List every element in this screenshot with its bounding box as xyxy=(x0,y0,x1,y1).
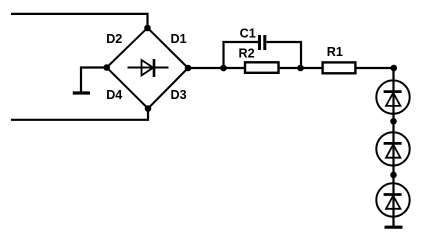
node right (junction dot) xyxy=(185,65,192,72)
resistor R1 xyxy=(323,62,356,73)
junction dot between circled diodes 2 and 3 xyxy=(390,172,397,179)
wire R2 to R1 xyxy=(280,67,322,69)
svg-text:R2: R2 xyxy=(239,47,255,61)
diode D2 arm (left node to top node) xyxy=(107,28,148,68)
svg-text:D4: D4 xyxy=(106,88,122,102)
node bottom (junction dot) xyxy=(145,105,152,112)
diode D1 arm (top node to right node) xyxy=(148,28,189,68)
resistor R2 xyxy=(245,62,279,73)
svg-text:D3: D3 xyxy=(171,88,187,102)
capacitor C1 branch left lead xyxy=(224,42,259,68)
diode D4 arm (left node to bottom node) xyxy=(107,68,148,109)
wire bridge right node to R2 xyxy=(188,67,244,69)
diode D3 arm (bottom node to right node) xyxy=(148,68,188,109)
wire top-left input xyxy=(11,14,148,28)
capacitor C1 plates xyxy=(260,35,265,50)
wire bottom-left input xyxy=(11,109,148,120)
svg-text:D1: D1 xyxy=(171,32,187,46)
circled diode 3 xyxy=(376,183,409,216)
circled diode 1 xyxy=(376,80,409,113)
svg-text:D2: D2 xyxy=(106,32,122,46)
ground bottom right xyxy=(385,226,403,229)
node left (junction dot) xyxy=(103,64,110,71)
junction dot between circled diodes 1 and 2 xyxy=(390,118,397,125)
bridge center diode symbol xyxy=(128,59,169,77)
ground left xyxy=(73,68,107,94)
junction dot right of R2 xyxy=(297,65,304,72)
wire right column vertical xyxy=(392,68,394,226)
svg-text:C1: C1 xyxy=(240,26,256,40)
svg-text:R1: R1 xyxy=(327,45,343,59)
circled diode 2 xyxy=(376,132,409,165)
wire R1 to right column xyxy=(357,67,395,69)
junction dot left of R2 xyxy=(220,65,227,72)
node top (junction dot) xyxy=(144,25,151,32)
capacitor C1 branch right lead xyxy=(267,42,302,68)
junction dot top of right column xyxy=(391,65,398,72)
